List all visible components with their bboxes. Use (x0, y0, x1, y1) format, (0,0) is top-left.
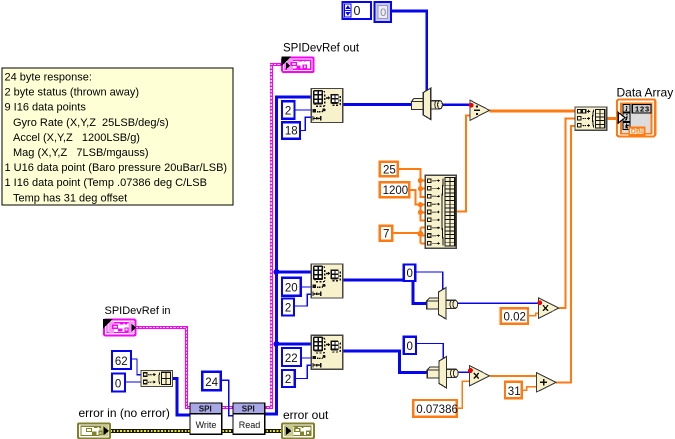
wire numeric control to join1 hi input (392, 11, 427, 91)
wire constant 0.02 to multiply2 (528, 313, 539, 316)
svg-text:2: 2 (285, 374, 291, 386)
svg-text:0: 0 (407, 268, 413, 280)
svg-text:1 U16 data point (Baro pressur: 1 U16 data point (Baro pressure 20uBar/L… (5, 162, 228, 174)
svg-text:20: 20 (285, 283, 298, 295)
junction dots accel scale (418, 202, 423, 207)
svg-text:Gyro Rate (X,Y,Z 25LSB/deg/s): Gyro Rate (X,Y,Z 25LSB/deg/s) (13, 117, 169, 129)
junction dot row2 (274, 269, 280, 275)
wire branch to array subset 2 (277, 271, 313, 274)
svg-text:25: 25 (383, 164, 396, 176)
constant 22 index (282, 348, 301, 366)
terminal Data Array indicator (617, 99, 655, 136)
svg-text:2: 2 (285, 106, 291, 118)
wire data array to indicator (607, 117, 618, 120)
wire add output to final build array (556, 126, 575, 382)
constant 25 gyro scale (380, 162, 398, 177)
svg-text:0: 0 (380, 7, 386, 19)
wire constant 2 to subset1 index (295, 109, 312, 111)
wire constant 18 to subset1 length (300, 117, 311, 130)
wire error cluster run (110, 429, 282, 433)
svg-text:Accel (X,Y,Z 1200LSB/g): Accel (X,Y,Z 1200LSB/g) (13, 132, 140, 144)
svg-text:0.07386: 0.07386 (416, 404, 458, 416)
final build array (3 inputs) (575, 107, 607, 130)
array subset 2 (baro bytes) (311, 264, 342, 298)
constant 7 mag scale (380, 226, 393, 241)
wire command array to SPI Write (173, 379, 191, 416)
svg-text:DBL: DBL (631, 129, 646, 136)
array subset 1 (status+data bytes) (311, 89, 342, 123)
svg-text:error out: error out (283, 408, 329, 422)
svg-text:0: 0 (115, 378, 121, 390)
svg-text:2 byte status (thrown away): 2 byte status (thrown away) (5, 87, 140, 99)
junction dots gyro scale (418, 178, 423, 183)
wire constant 2 to subset2 length (294, 294, 311, 306)
wire scale array to divide (456, 116, 470, 212)
svg-text:22: 22 (285, 353, 298, 365)
svg-text:7: 7 (383, 229, 389, 241)
svg-text:0.02: 0.02 (504, 311, 526, 323)
constant 2 index (282, 101, 295, 119)
constant 62 command (112, 351, 131, 369)
wire subset2 output to join2 (343, 280, 428, 304)
comment box 24 byte response (2, 68, 233, 205)
wire subset1 output to join1 (343, 103, 414, 106)
numeric control with spinner (343, 2, 371, 19)
terminal error out (282, 423, 314, 438)
terminal error in (78, 423, 110, 438)
join numbers 1 (411, 88, 442, 119)
svg-text:Read: Read (239, 420, 261, 430)
wire subset3 output to join3 (343, 351, 429, 373)
svg-text:2: 2 (285, 302, 291, 314)
wire constant 20 to subset2 index (301, 286, 312, 288)
multiply 3 (469, 366, 489, 387)
constant 31 temp offset (505, 382, 522, 399)
divide (470, 100, 490, 120)
constant 0.07386 temp scale (413, 400, 458, 417)
coercion dot divide (469, 103, 474, 108)
build array 9 (scale factors) (425, 175, 456, 248)
wire constant 2 to subset3 length (295, 365, 311, 378)
junction dot mag scale (417, 231, 423, 237)
constant 0 hi byte row2 (404, 265, 416, 282)
svg-text:error in (no error): error in (no error) (79, 406, 170, 420)
svg-text:Data Array: Data Array (617, 86, 674, 100)
wire constant 0 to build array2 (125, 381, 141, 383)
join numbers 3 (427, 357, 458, 388)
wire join3 output to multiply3 (459, 371, 470, 373)
junction dot row3 (274, 341, 280, 347)
svg-text:0: 0 (354, 4, 361, 18)
svg-text:SPIDevRef in: SPIDevRef in (105, 305, 171, 317)
svg-text:1 I16 data point (Temp .07386: 1 I16 data point (Temp .07386 deg C/LSB (5, 177, 207, 189)
wire constant 7 to build array9 (392, 228, 425, 244)
wire join1 output to divide (440, 103, 470, 106)
terminal SPIDevRef out (281, 56, 313, 72)
constant 2 length row3 (282, 370, 295, 387)
svg-text:SPI: SPI (199, 404, 212, 413)
constant 24 read length (202, 372, 221, 391)
svg-text:9 I16 data points: 9 I16 data points (5, 102, 87, 114)
subVI SPI Read (233, 403, 265, 434)
svg-text:31: 31 (508, 386, 521, 398)
wire constant 1200 to build array9 (409, 190, 425, 221)
constant 20 index (282, 278, 301, 296)
svg-text:24 byte response:: 24 byte response: (5, 72, 92, 84)
coercion dot multiply2 (537, 300, 542, 305)
wire constant 24 to SPI Read (221, 380, 233, 415)
constant 1200 accel scale (380, 182, 410, 197)
wire join2 output to multiply2 (457, 302, 539, 304)
constant 18 length (282, 122, 300, 139)
constant 0 command (112, 374, 125, 392)
wire constant 0 row2 to join2 hi input (415, 272, 442, 291)
wire constant 62 to build array2 (131, 359, 141, 375)
join numbers 2 (427, 288, 458, 319)
terminal SPIDevRef in (103, 319, 136, 336)
constant 0 hi byte row3 (404, 337, 416, 354)
coercion dot multiply3 (468, 368, 473, 373)
wire multiply3 output to add (490, 375, 537, 377)
wire divide output to final build array (489, 110, 575, 113)
svg-text:Mag (X,Y,Z 7LSB/mgauss): Mag (X,Y,Z 7LSB/mgauss) (13, 147, 149, 159)
constant 0.02 baro scale (501, 308, 528, 323)
wire constant 0.07386 to multiply3 (457, 381, 470, 408)
wire constant 22 to subset3 index (301, 357, 311, 359)
wire constant 31 to add (522, 387, 537, 390)
svg-text:1200: 1200 (383, 185, 409, 197)
wire branch to array subset 3 (277, 343, 313, 346)
multiply 2 (539, 298, 559, 319)
svg-text:SPI: SPI (242, 404, 255, 413)
wire multiply2 output to final build array (559, 119, 576, 309)
numeric constant 0 grey (I8) (375, 2, 392, 22)
subVI SPI Write (190, 403, 222, 434)
array subset 3 (temp bytes) (311, 335, 342, 369)
svg-text:Write: Write (196, 420, 217, 430)
wire response byte array from SPI Read (265, 97, 312, 414)
build array 2 (command bytes) (141, 371, 173, 387)
wire constant 0 row3 to join3 hi input (417, 344, 444, 360)
svg-text:24: 24 (205, 377, 218, 389)
add (537, 373, 557, 392)
svg-text:123: 123 (635, 104, 650, 113)
wire SPIDevRef reference chain (136, 65, 283, 408)
svg-text:SPIDevRef out: SPIDevRef out (283, 43, 360, 55)
svg-text:62: 62 (115, 356, 128, 368)
svg-text:0: 0 (407, 341, 413, 353)
constant 2 length row2 (282, 299, 294, 316)
wire constant 25 to build array9 (398, 169, 426, 197)
svg-text:Temp has 31 deg offset: Temp has 31 deg offset (13, 192, 127, 204)
svg-text:18: 18 (285, 126, 298, 138)
